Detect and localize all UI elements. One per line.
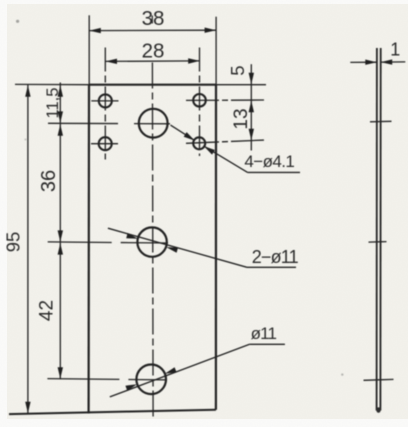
small hole bottom-right: [193, 137, 205, 149]
dimension line 38: [89, 29, 216, 31]
svg-text:2−ø11: 2−ø11: [252, 247, 299, 267]
arrow down onto hole row2 for dim 13: [249, 129, 254, 141]
small hole bottom-left: [99, 137, 112, 150]
centre line large hole 3 with extension to 42 dim: [47, 379, 166, 380]
small hole top-left: [99, 94, 112, 107]
svg-text:28: 28: [142, 39, 165, 62]
label underline 4-o4.1: [248, 171, 300, 173]
vertical centre line through large holes: [151, 63, 154, 419]
arrow down onto top edge for dim 5: [249, 73, 254, 85]
svg-text:38: 38: [142, 7, 165, 30]
extension line right of plate top edge: [216, 84, 266, 86]
diameter line through middle hole: [108, 228, 247, 267]
dimension line 5/13 vertical: [250, 64, 252, 150]
plate front view bottom edge with left extension: [9, 410, 216, 414]
chain dimension line 11.5/36/42: [59, 83, 61, 380]
vertical centre line dash above 38 text gap: [151, 16, 153, 24]
arrow at middle hole right edge: [166, 247, 178, 253]
scan speck top-left: [16, 20, 19, 23]
scan speck mid-left: [24, 138, 26, 140]
svg-text:42: 42: [37, 300, 58, 321]
white page margins: [0, 0, 7, 427]
arrow at bottom hole lower-left edge: [125, 384, 137, 391]
scan speck near side view: [341, 373, 343, 375]
svg-text:95: 95: [3, 232, 24, 253]
label underline 2-o11: [247, 266, 296, 268]
centre line row 1 left: [91, 100, 118, 102]
centre line row 2 left: [91, 143, 118, 145]
plate front view top edge: [89, 84, 216, 86]
svg-text:13: 13: [231, 108, 252, 129]
arrow at small hole upper-left edge: [184, 132, 195, 141]
diameter line through bottom hole: [110, 344, 250, 397]
arrow down at hole1 line for dim 11.5: [58, 111, 63, 123]
side view centre tick at hole 2: [369, 241, 387, 244]
arrow at small hole lower-right edge: [204, 146, 215, 155]
centre line row 2 right with extension to 13 dim: [186, 140, 265, 143]
arrow up at top edge for dim 11.5: [58, 85, 63, 97]
svg-text:4−ø4.1: 4−ø4.1: [244, 152, 294, 171]
arrow right of dim 28: [188, 58, 200, 63]
svg-text:1: 1: [390, 40, 400, 60]
arrow up onto hole row1 for dim 5 and 13: [249, 101, 254, 113]
arrow up at hole1 line for dim 36: [58, 124, 63, 136]
arrow down at hole3 line for dim 42: [58, 367, 63, 379]
left hole column centre line: [104, 48, 106, 160]
svg-text:ø11: ø11: [251, 324, 277, 343]
arrow at bottom hole upper-right edge: [165, 367, 177, 374]
plate front view right edge: [215, 85, 217, 410]
label underline o11: [250, 343, 285, 345]
arrow pointing left at right face: [381, 59, 393, 64]
arrow up of dim 95: [25, 85, 30, 97]
leader tail from large hole 1 to small hole: [171, 125, 195, 141]
svg-text:36: 36: [38, 170, 60, 192]
leader from small hole to label 4-o4.1: [204, 146, 248, 172]
large hole top: [139, 109, 168, 138]
dimension line 95: [27, 85, 29, 414]
arrow right of dim 38: [205, 28, 217, 33]
side view left face line: [376, 48, 378, 411]
centre line large hole 2 with extension to 36/42 dims: [48, 242, 168, 243]
side view bottom rounded end: [376, 407, 380, 413]
side view centre tick at hole 3: [364, 378, 394, 381]
large hole middle: [137, 227, 166, 256]
arrow up at hole2 line for dim 42: [58, 243, 63, 255]
small hole top-right: [193, 94, 206, 107]
arrow down of dim 95: [25, 402, 30, 414]
arrow down at hole2 line for dim 36: [58, 230, 63, 242]
svg-text:5: 5: [227, 65, 248, 75]
dimension line 1 left part: [350, 61, 377, 63]
arrow left of dim 28: [106, 59, 118, 64]
arrow at middle hole left edge: [126, 233, 138, 239]
arrow pointing right at left face: [365, 60, 377, 65]
centre line row 1 right with extension to 5/13 dims: [186, 99, 266, 101]
side view right face line: [379, 48, 381, 411]
side view centre tick at hole 1: [370, 120, 392, 123]
top extension line to the left: [15, 83, 89, 85]
right hole column centre line: [199, 48, 201, 157]
plate front view left edge: [87, 85, 90, 414]
dimension line 28: [106, 60, 200, 63]
svg-text:11,5: 11,5: [44, 88, 62, 119]
large hole bottom: [136, 365, 166, 395]
extension line above plate right edge: [215, 17, 217, 85]
centre line large hole 1 with extension to 11.5/36 dims: [48, 122, 170, 125]
arrow left of dim 38: [89, 28, 101, 33]
extension line above plate left edge: [88, 15, 90, 84]
dimension line 1 right part: [381, 61, 406, 63]
